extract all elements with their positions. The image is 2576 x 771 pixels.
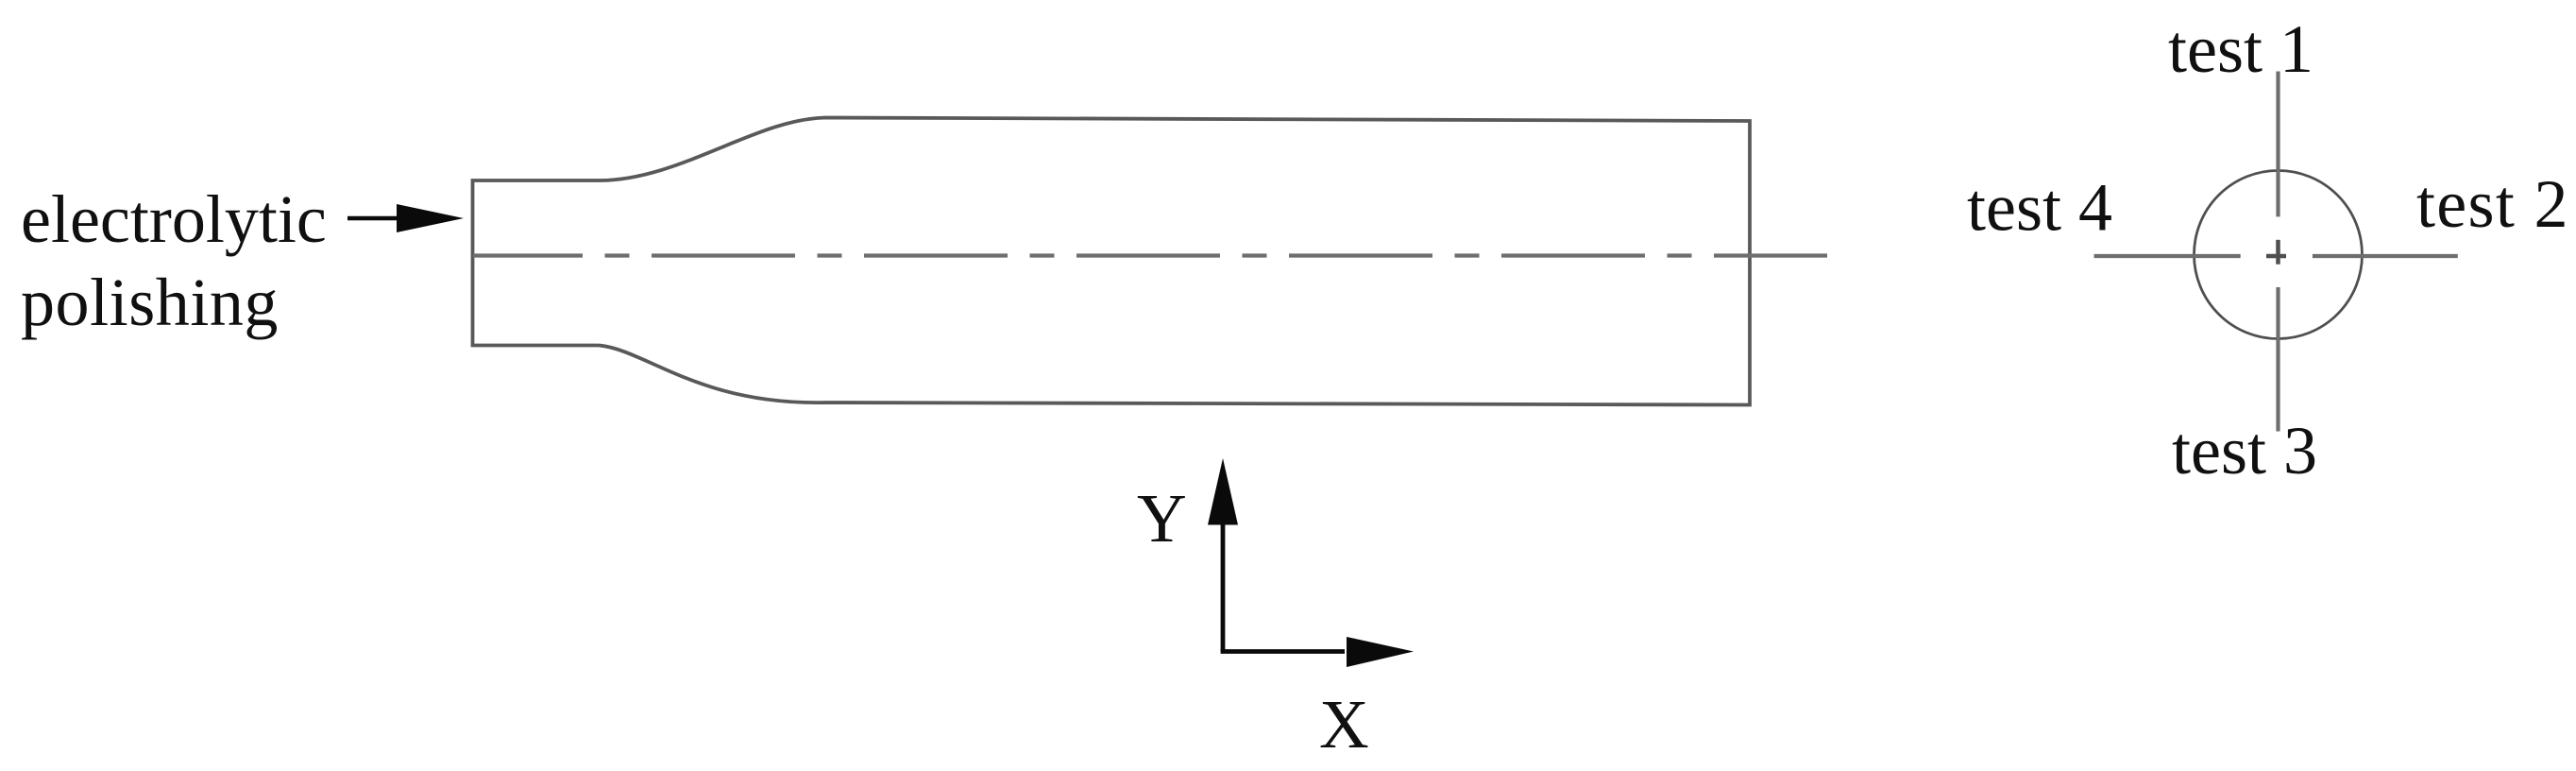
svg-text:test 4: test 4 (1967, 170, 2112, 246)
svg-text:Y: Y (1137, 480, 1187, 557)
crosshair horizontal centerline (2094, 254, 2458, 258)
svg-text:test 3: test 3 (2172, 413, 2317, 488)
svg-text:polishing: polishing (21, 265, 279, 340)
X axis (1221, 637, 1414, 762)
svg-text:test 2: test 2 (2416, 166, 2569, 242)
svg-text:X: X (1319, 686, 1369, 762)
svg-text:electrolytic: electrolytic (21, 181, 327, 257)
crosshair vertical centerline (2276, 72, 2279, 432)
svg-text:test 1: test 1 (2168, 11, 2313, 87)
Y axis (1137, 458, 1238, 652)
circle (specimen cross-section) (2195, 171, 2363, 339)
arrow leader to specimen (347, 204, 464, 232)
label electrolytic polishing (21, 181, 327, 340)
specimen centerline (dash-dot) (473, 253, 1827, 257)
specimen outline (473, 118, 1751, 405)
